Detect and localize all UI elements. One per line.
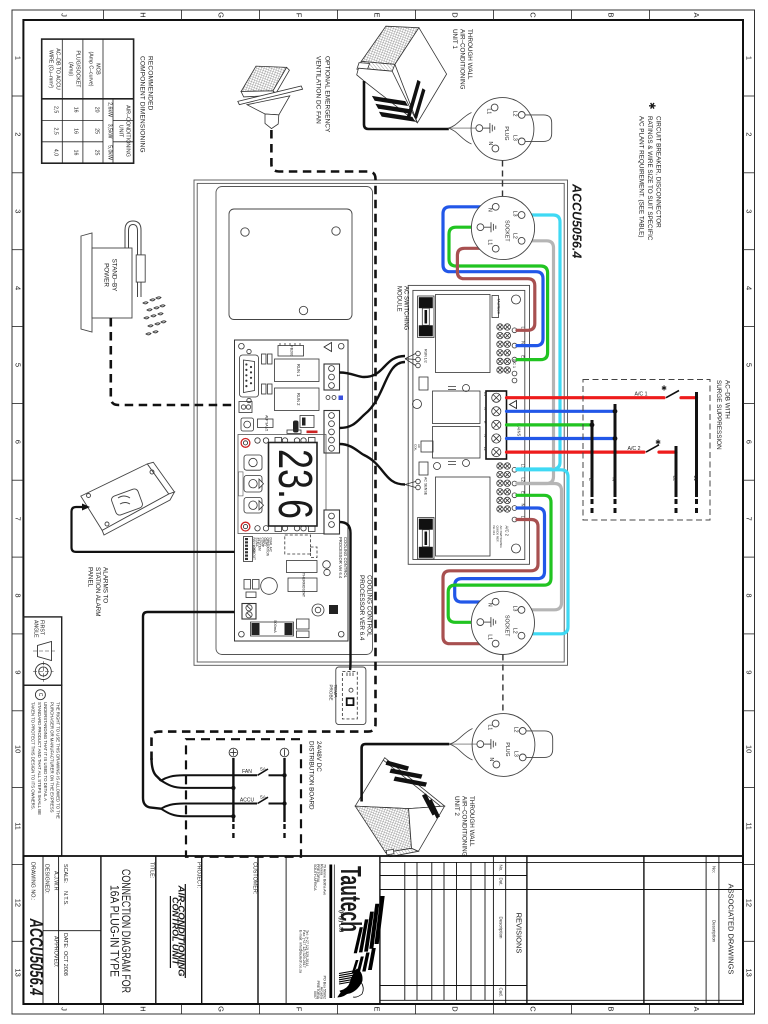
wire socket1 L3 to module (cyan)	[517, 215, 560, 469]
svg-text:SOCKET: SOCKET	[504, 220, 510, 242]
RH temp terminal on PCB	[324, 510, 340, 534]
svg-text:L1: L1	[486, 634, 492, 640]
svg-text:L2: L2	[513, 727, 519, 733]
svg-text:12: 12	[745, 899, 754, 907]
svg-text:CONTROL UNIT: CONTROL UNIT	[170, 897, 179, 966]
red marked resistor	[307, 431, 318, 434]
round relay	[261, 578, 278, 595]
wire PCB alarm output to station alarm panel	[72, 507, 235, 552]
component circles above LCD	[255, 438, 260, 443]
svg-text:1: 1	[745, 56, 754, 60]
svg-text:AC–DB WITH: AC–DB WITH	[724, 380, 731, 419]
sparks	[143, 297, 166, 335]
svg-text:STANDARD PRODUCT AND THAT: STANDARD PRODUCT AND THAT ALL STEPS SHAL…	[37, 702, 42, 815]
svg-text:L2: L2	[512, 233, 518, 239]
relay 2 output terminals	[497, 463, 503, 469]
svg-text:5: 5	[14, 363, 23, 367]
svg-text:G: G	[217, 12, 226, 18]
svg-text:FB200: FB200	[290, 346, 294, 357]
svg-text:WIRE (Cu–mm²): WIRE (Cu–mm²)	[48, 50, 54, 89]
svg-text:A/C 2: A/C 2	[628, 446, 641, 452]
svg-text:APPROVED:: APPROVED:	[53, 936, 59, 967]
svg-text:PROJECT:: PROJECT:	[196, 862, 202, 888]
svg-text:L2: L2	[512, 111, 518, 117]
A/C fan control terminal	[324, 364, 340, 390]
svg-text:A.J.W.R: A.J.W.R	[53, 871, 59, 891]
first angle projection box	[23, 617, 61, 685]
svg-text:N: N	[486, 603, 492, 607]
svg-text:MCB: MCB	[95, 63, 101, 75]
svg-text:A/C 1: A/C 1	[635, 392, 648, 398]
svg-text:Description: Description	[499, 917, 504, 940]
svg-text:ALARMS TO: ALARMS TO	[102, 567, 109, 603]
svg-text:ASSOCIATED DRAWINGS: ASSOCIATED DRAWINGS	[727, 884, 736, 975]
svg-text:0007: 0007	[313, 991, 317, 999]
svg-text:6: 6	[14, 440, 23, 444]
svg-text:L3: L3	[513, 751, 519, 757]
svg-text:D: D	[451, 12, 460, 18]
svg-text:SURGE SUPPRESSION: SURGE SUPPRESSION	[715, 380, 722, 450]
svg-text:2: 2	[745, 132, 754, 136]
relay 1	[436, 295, 491, 373]
ACCU5056.4 control unit enclosure (double border)	[194, 180, 568, 665]
svg-text:H: H	[139, 12, 148, 17]
fuse 2	[418, 477, 521, 559]
plug 2 (CEE pictogram)	[449, 714, 552, 777]
DC - busbar	[283, 758, 285, 822]
svg-text:DISTRIBUTION BOARD: DISTRIBUTION BOARD	[308, 741, 315, 810]
A/C control terminal	[324, 411, 340, 454]
svg-text:AC SWITCHING: AC SWITCHING	[402, 286, 408, 331]
optional emergency ventilation DC fan (isometric)	[238, 66, 303, 129]
svg-text:RUN 2: RUN 2	[296, 393, 301, 406]
thermostat	[288, 578, 317, 592]
svg-text:8: 8	[14, 593, 23, 597]
LEDs	[326, 396, 330, 400]
svg-text:500mA: 500mA	[273, 620, 278, 633]
svg-text:A/C 2: A/C 2	[505, 526, 510, 537]
revisions table	[380, 862, 743, 1000]
dashed link socket2-plug2	[502, 655, 504, 714]
svg-text:20: 20	[94, 107, 100, 113]
svg-text:B: B	[607, 1006, 616, 1011]
mains wire L1 to AC-DB (red)	[507, 396, 665, 399]
socket 1 (CEE pictogram)	[471, 196, 534, 259]
control wire 2 PCB to run connector	[340, 362, 406, 428]
svg-text:(Amp): (Amp)	[68, 62, 74, 76]
warning triangle	[324, 343, 332, 352]
svg-text:A: A	[692, 1006, 701, 1011]
svg-text:E: E	[373, 12, 382, 17]
svg-text:3: 3	[14, 209, 23, 213]
dashed option areas	[285, 535, 311, 554]
recommended component dimensioning table	[42, 39, 134, 163]
dashed link plug1-socket1	[502, 161, 504, 197]
svg-text:✱: ✱	[661, 385, 667, 393]
svg-text:DATE:: DATE:	[62, 933, 68, 948]
svg-text:SCALE:: SCALE:	[62, 864, 68, 883]
svg-text:L1: L1	[487, 240, 493, 246]
AC sense connector	[405, 479, 420, 490]
svg-text:N: N	[521, 341, 526, 344]
svg-text:SOCKET: SOCKET	[503, 615, 509, 637]
svg-text:A: A	[692, 12, 701, 17]
svg-text:N: N	[611, 477, 617, 481]
svg-text:AIR–CONDITIONING: AIR–CONDITIONING	[461, 796, 468, 857]
svg-text:F: F	[295, 13, 304, 18]
busbar L1	[695, 392, 698, 497]
blank cover plate	[229, 209, 352, 320]
svg-text:TITLE:: TITLE:	[149, 862, 155, 878]
svg-text:N: N	[488, 758, 494, 762]
ACCU pair fork	[161, 804, 257, 817]
svg-text:DESIGNED:: DESIGNED:	[44, 864, 50, 894]
svg-text:PANEL: PANEL	[87, 567, 94, 588]
svg-text:11: 11	[745, 822, 754, 830]
svg-text:CUSTOMER:: CUSTOMER:	[252, 862, 258, 894]
mid relays	[433, 391, 481, 424]
svg-text:9: 9	[14, 670, 23, 674]
stand-by battery connector	[239, 402, 252, 413]
svg-text:THERMOSTAT: THERMOSTAT	[302, 573, 306, 598]
regulator 7805	[287, 561, 318, 573]
red ring screws	[241, 439, 250, 448]
wire socket1 E to module (green)	[449, 227, 548, 359]
svg-text:FAN: FAN	[242, 769, 252, 775]
svg-text:E-mail: info@tautech.co.za: E-mail: info@tautech.co.za	[299, 930, 303, 973]
svg-text:2,5: 2,5	[53, 106, 59, 113]
svg-text:D: D	[451, 1006, 460, 1012]
svg-text:RUN 1/2: RUN 1/2	[424, 349, 428, 363]
temp probe	[336, 667, 366, 725]
svg-text:N: N	[487, 208, 493, 212]
chassis mounting panel	[216, 187, 373, 655]
svg-text:9: 9	[745, 670, 754, 674]
svg-text:ALP 9A1/2: ALP 9A1/2	[264, 415, 268, 431]
svg-text:5,0kW: 5,0kW	[107, 145, 113, 160]
svg-text:COIL: COIL	[414, 444, 418, 451]
svg-text:L3: L3	[511, 606, 517, 612]
svg-text:5A: 5A	[260, 795, 267, 801]
svg-text:PLUG: PLUG	[503, 126, 509, 140]
cooling control processor PCB	[235, 340, 349, 641]
svg-text:COOLING CONTROL: COOLING CONTROL	[365, 575, 372, 637]
svg-text:C: C	[529, 12, 538, 18]
svg-text:G: G	[217, 1006, 226, 1012]
24/48V DC distribution board (dashed box)	[186, 739, 301, 857]
station alarm panel box	[81, 462, 175, 535]
fuse 1	[418, 295, 521, 373]
svg-text:UNIT: UNIT	[118, 125, 124, 138]
power cord with strain relief	[125, 221, 141, 297]
svg-text:2: 2	[14, 132, 23, 136]
wire socket1 N to module (blue)	[443, 207, 543, 346]
svg-text:DRAWING NO.:: DRAWING NO.:	[30, 862, 36, 900]
svg-text:L2: L2	[521, 477, 526, 482]
svg-text:RECOMMENDED: RECOMMENDED	[146, 56, 153, 111]
svg-text:E: E	[521, 491, 526, 494]
svg-text:13: 13	[14, 969, 23, 977]
AC-DB with surge suppression (dashed box)	[583, 380, 710, 521]
svg-text:SOUTH AFRICA: SOUTH AFRICA	[313, 864, 317, 891]
plug 1 (CEE pictogram)	[448, 98, 551, 161]
svg-text:PURCHASER OR MANUFACTURER O: PURCHASER OR MANUFACTURER ON THE EXPRESS	[49, 702, 54, 813]
svg-text:TAKEN TO PROTECT THIS DESI: TAKEN TO PROTECT THIS DESIGN TO ITS OWNE…	[31, 702, 36, 810]
sense wire PCB to module	[340, 444, 406, 485]
FB200 module	[278, 346, 304, 357]
component circles below LCD	[255, 526, 260, 531]
svg-text:L1: L1	[487, 725, 493, 731]
tautech tag	[492, 296, 499, 318]
svg-text:No 313: No 313	[492, 526, 496, 536]
svg-text:L1: L1	[486, 109, 492, 115]
svg-text:RUN 1: RUN 1	[296, 364, 301, 377]
stand-by power unit	[81, 221, 145, 332]
control wire PCB to run connector	[340, 356, 406, 377]
svg-text:E: E	[521, 355, 526, 358]
svg-text:2,5: 2,5	[53, 127, 59, 134]
svg-text:✱: ✱	[647, 102, 657, 110]
svg-text:N.T.S.: N.T.S.	[62, 891, 68, 906]
svg-text:POWER: POWER	[103, 263, 110, 287]
mains wire E to AC-DB (green)	[507, 423, 593, 426]
wire PCB to temp probe	[340, 522, 351, 670]
svg-text:Description: Description	[712, 920, 717, 943]
svg-text:7: 7	[745, 517, 754, 521]
svg-text:L1: L1	[483, 392, 487, 396]
mains wire L2 to AC-DB (red)	[507, 451, 645, 454]
svg-text:Cad.: Cad.	[499, 988, 504, 997]
wire module to socket2 L1 (brown)	[443, 520, 538, 644]
svg-text:MODULE: MODULE	[396, 286, 402, 312]
power switch	[241, 418, 254, 431]
DIP switch option block	[244, 537, 253, 562]
busbar E	[591, 420, 594, 497]
svg-text:No:: No:	[712, 866, 717, 873]
svg-text:No.: No.	[499, 865, 504, 872]
through wall air-conditioning unit 1 (isometric)	[357, 26, 447, 123]
svg-text:CIRCUIT BREAKER, DISCONNECTO: CIRCUIT BREAKER, DISCONNECTOR	[655, 116, 662, 228]
relay RUN 2	[275, 388, 320, 411]
svg-text:25: 25	[94, 128, 100, 134]
svg-text:L1: L1	[692, 475, 698, 481]
Tautech logo	[329, 865, 332, 999]
svg-text:UNDERSTANDING THAT IT IS U: UNDERSTANDING THAT IT IS USED TO DETAIL …	[43, 702, 48, 801]
svg-text:PLUG: PLUG	[504, 742, 510, 756]
svg-text:L2: L2	[672, 475, 678, 481]
svg-text:PROBE: PROBE	[328, 685, 333, 701]
battery 500mA	[251, 622, 294, 636]
DC + busbar	[232, 758, 234, 822]
relay 1 output terminals	[497, 324, 503, 330]
svg-text:N: N	[521, 503, 526, 506]
wire module to socket2 E (green)	[448, 495, 551, 622]
svg-text:25: 25	[94, 150, 100, 156]
svg-text:3,5kW: 3,5kW	[107, 124, 113, 139]
svg-text:THE RIGHT TO USE THIS DRA: THE RIGHT TO USE THIS DRAWING IS ALLOWED…	[56, 702, 61, 819]
junction dots	[282, 773, 286, 777]
svg-text:C: C	[37, 693, 43, 697]
svg-text:OCT 2008: OCT 2008	[62, 951, 68, 976]
through wall air-conditioning unit 2 (isometric)	[355, 758, 444, 857]
wire PCB battery to ACCU switch	[143, 612, 235, 809]
wire module to socket2 L2 (cyan)	[517, 470, 568, 634]
cone symbol	[38, 642, 52, 661]
busbar L2	[675, 446, 678, 497]
svg-text:11: 11	[14, 822, 23, 830]
svg-text:L3: L3	[512, 211, 518, 217]
svg-text:4: 4	[745, 286, 754, 290]
svg-text:2,6kW: 2,6kW	[107, 102, 113, 117]
AC switching module board	[408, 285, 529, 564]
wire module to socket2 L3 (grey)	[517, 484, 562, 610]
svg-text:TAUTECH: TAUTECH	[496, 299, 500, 315]
svg-text:OPTIONAL EMERGENCY: OPTIONAL EMERGENCY	[324, 56, 331, 133]
svg-text:10: 10	[745, 745, 754, 753]
title block	[23, 856, 743, 1004]
svg-text:STATION ALARM: STATION ALARM	[94, 567, 101, 616]
svg-text:VENTILATION DC FAN: VENTILATION DC FAN	[315, 56, 322, 124]
warning triangle	[510, 401, 517, 409]
ACCU switch	[258, 797, 269, 803]
svg-text:7: 7	[14, 517, 23, 521]
svg-text:AC SENSE: AC SENSE	[424, 477, 428, 496]
relay 2	[436, 477, 491, 556]
svg-text:16A PLUG-IN TYPE: 16A PLUG-IN TYPE	[108, 885, 122, 977]
plate screws	[241, 228, 249, 236]
zebra head	[338, 969, 363, 997]
svg-text:PROCESSOR Ver 6.4: PROCESSOR Ver 6.4	[338, 537, 343, 579]
svg-text:UNIT 2: UNIT 2	[453, 796, 460, 816]
svg-text:4: 4	[14, 286, 23, 290]
svg-text:C: C	[529, 1006, 538, 1012]
cable AC unit2 to plug2	[362, 744, 450, 801]
svg-text:3: 3	[745, 209, 754, 213]
svg-text:ANGLE: ANGLE	[33, 620, 39, 638]
toroid inductor	[312, 604, 324, 616]
buttons	[244, 455, 262, 470]
svg-text:1: 1	[14, 56, 23, 60]
svg-text:ACCU5056.4: ACCU5056.4	[570, 183, 584, 258]
svg-text:PLUG/SOCKET: PLUG/SOCKET	[75, 51, 81, 89]
junction dots	[613, 409, 618, 414]
svg-text:10: 10	[14, 745, 23, 753]
svg-text:(Pty) Ltd: (Pty) Ltd	[338, 910, 344, 932]
svg-text:13: 13	[745, 969, 754, 977]
svg-text:A/C 1: A/C 1	[512, 359, 516, 368]
svg-text:5: 5	[745, 363, 754, 367]
relay RUN 1	[275, 359, 320, 382]
copyright box	[23, 685, 61, 856]
LCD display	[269, 443, 318, 527]
wire module to socket2 N (blue)	[455, 508, 545, 602]
svg-text:8: 8	[745, 593, 754, 597]
svg-text:AIR–CONDITIONING: AIR–CONDITIONING	[459, 29, 466, 90]
dashed wire stand-by to PCB battery input	[111, 318, 233, 405]
svg-text:REVISIONS: REVISIONS	[515, 913, 524, 954]
FAN switch	[258, 769, 269, 775]
svg-text:J: J	[60, 1007, 69, 1011]
svg-text:J: J	[60, 13, 69, 17]
DB9 serial connector	[240, 355, 259, 397]
dashed wire fan to DC distribution board	[152, 130, 376, 762]
svg-text:16: 16	[73, 107, 79, 113]
cable AC unit1 to plug1	[364, 81, 449, 129]
svg-text:L3: L3	[512, 135, 518, 141]
mains wire N to AC-DB (blue)	[507, 410, 616, 413]
svg-text:24/48V DC: 24/48V DC	[315, 741, 322, 772]
LCD bezel plate	[238, 435, 326, 534]
svg-text:5A: 5A	[260, 766, 267, 772]
svg-text:B: B	[607, 12, 616, 17]
svg-text:E: E	[373, 1006, 382, 1011]
svg-text:AC–DB TO ACCU: AC–DB TO ACCU	[55, 48, 61, 90]
small parts	[419, 377, 428, 390]
svg-text:FAN LOCKOUT: FAN LOCKOUT	[252, 538, 256, 561]
svg-text:23.6: 23.6	[268, 449, 321, 519]
svg-text:ACCU5056.4: ACCU5056.4	[26, 918, 46, 996]
zebra graphic	[352, 896, 385, 973]
svg-text:COMPONENT DIMENSIONING: COMPONENT DIMENSIONING	[138, 56, 145, 153]
svg-text:AIR–CONDITIONING: AIR–CONDITIONING	[125, 105, 131, 157]
svg-text:L2: L2	[511, 628, 517, 634]
svg-text:4,0: 4,0	[53, 149, 59, 156]
run 1/2 control connector	[405, 351, 420, 368]
svg-text:THROUGH WALL: THROUGH WALL	[468, 796, 475, 847]
svg-text:6: 6	[745, 440, 754, 444]
svg-text:Dat.: Dat.	[499, 878, 504, 886]
svg-text:PROCESSOR VER 6.4: PROCESSOR VER 6.4	[358, 575, 365, 641]
svg-text:16: 16	[73, 150, 79, 156]
wire socket1 L1 to module (brown)	[457, 248, 534, 330]
svg-text:F: F	[295, 1007, 304, 1012]
svg-text:STAND–BY: STAND–BY	[111, 259, 118, 293]
busbar N	[614, 404, 617, 497]
wire socket1 L2 to module (grey)	[517, 241, 554, 484]
svg-text:12: 12	[14, 899, 23, 907]
svg-text:UNIT 1: UNIT 1	[451, 29, 458, 49]
alarm output connector	[242, 604, 256, 620]
svg-text:N: N	[487, 142, 493, 146]
mains terminal block	[486, 391, 507, 459]
FAN pair fork	[152, 758, 162, 781]
svg-text:16: 16	[73, 128, 79, 134]
svg-text:THROUGH WALL: THROUGH WALL	[466, 29, 473, 80]
svg-text:L2: L2	[483, 447, 487, 451]
socket 2 (CEE pictogram)	[471, 591, 534, 654]
svg-text:ACCU: ACCU	[240, 797, 255, 803]
svg-text:H: H	[139, 1006, 148, 1011]
svg-text:RATINGS & WIRE SIZE TO SU: RATINGS & WIRE SIZE TO SUIT SPECIFIC	[646, 116, 653, 241]
svg-text:A/C PLANT REQUIREMENT. (SEE: A/C PLANT REQUIREMENT. (SEE TABLE)	[638, 116, 645, 237]
svg-text:(Amp C–curve): (Amp C–curve)	[88, 52, 94, 87]
